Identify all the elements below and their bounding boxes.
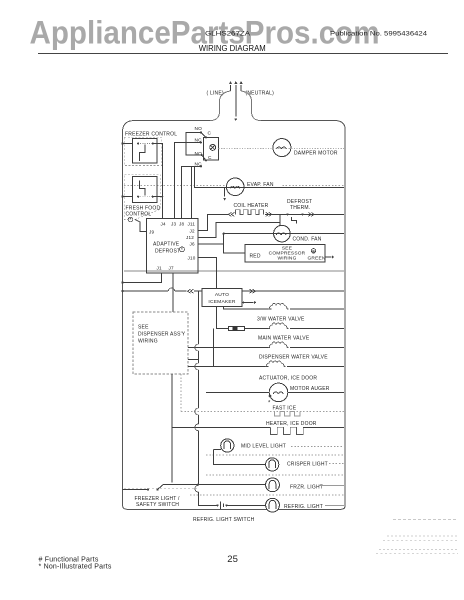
svg-text:J4: J4	[161, 222, 166, 227]
wire auger motor line	[206, 391, 269, 393]
svg-text:FRZR. LIGHT: FRZR. LIGHT	[290, 484, 323, 490]
power cord plug arrows	[230, 85, 232, 91]
wire J6 to compressor	[198, 243, 224, 245]
svg-text:Publication No. 5995436424: Publication No. 5995436424	[330, 31, 428, 38]
divider lights 1	[206, 454, 344, 456]
wire stub from dispenser box	[188, 359, 198, 361]
svg-text:* Non-Illustrated Parts: * Non-Illustrated Parts	[39, 564, 112, 571]
svg-text:DEFROST: DEFROST	[155, 249, 180, 255]
svg-text:3/W WATER VALVE: 3/W WATER VALVE	[257, 317, 305, 323]
wire NO tie	[186, 133, 202, 156]
wire to J9	[135, 220, 147, 232]
fast ice heater dashed	[275, 412, 301, 417]
svg-text:DISPENSER ASS'Y: DISPENSER ASS'Y	[138, 332, 186, 338]
solenoid actuator ice door	[266, 366, 269, 368]
svg-text:DISPENSER WATER VALVE: DISPENSER WATER VALVE	[259, 355, 328, 361]
wire cond fan node to compressor	[224, 234, 245, 253]
wire freezer control to left bus	[123, 142, 133, 144]
wire coil line to cond fan top	[279, 214, 281, 225]
freezer light safety switch	[123, 489, 149, 491]
freezer control dashed box	[124, 137, 162, 165]
connector arrows coil heater right	[265, 213, 344, 215]
evap fan arrow	[224, 187, 226, 196]
auger motor M2	[269, 383, 288, 402]
wire J1 to left bus	[123, 273, 162, 283]
freezer control switch	[137, 142, 139, 144]
divider freezer light section dashed	[124, 488, 197, 490]
wire C2 to J11	[192, 166, 202, 218]
wire green arrow	[325, 256, 332, 258]
wire J2 to coil heater line	[198, 214, 228, 230]
evap fan motor	[226, 178, 244, 196]
svg-text:REFRIG. LIGHT: REFRIG. LIGHT	[284, 504, 323, 510]
wire evap fan feed	[195, 166, 227, 187]
svg-text:CRISPER LIGHT: CRISPER LIGHT	[287, 462, 328, 468]
heater ice door element	[270, 427, 303, 434]
wire NC2 to J8	[182, 166, 202, 218]
wire mid light to right bus dotted	[291, 446, 344, 448]
wire channel vertical	[197, 291, 199, 344]
wire J10 to icemaker top	[198, 258, 217, 289]
defrost therm bracket	[291, 217, 296, 223]
divider damper section	[124, 185, 344, 187]
evap fan motor arcs	[230, 186, 234, 188]
fresh food control switch box	[133, 177, 158, 203]
wire dispenser valve from box	[188, 347, 270, 349]
evap fan label	[246, 180, 282, 187]
fuse F1	[229, 326, 245, 330]
wire auger to right bus	[288, 391, 344, 393]
faint stamp row 1	[393, 519, 458, 521]
svg-text:25: 25	[227, 554, 238, 565]
svg-text:FAST ICE: FAST ICE	[273, 406, 297, 412]
svg-text:SAFETY SWITCH: SAFETY SWITCH	[136, 502, 179, 508]
wire cond fan line	[224, 233, 344, 235]
svg-text:C: C	[208, 155, 212, 161]
divider dotted vertical at dispenser	[180, 374, 182, 412]
svg-text:J11: J11	[188, 222, 196, 227]
svg-text:THERM.: THERM.	[290, 205, 310, 211]
svg-text:MAIN WATER VALVE: MAIN WATER VALVE	[258, 336, 310, 342]
ground symbol circled	[311, 249, 315, 253]
auto icemaker box	[202, 289, 242, 307]
frzr light bulb	[266, 478, 280, 492]
damper motor winding box	[204, 137, 219, 160]
damper switch contacts 1	[200, 131, 202, 133]
svg-text:J7: J7	[169, 266, 174, 271]
neutral conductor wire	[241, 91, 261, 121]
wire fresh food control to left bus	[123, 196, 133, 198]
svg-text:*: *	[181, 247, 183, 252]
svg-text:WIRING DIAGRAM: WIRING DIAGRAM	[199, 44, 266, 53]
cabinet outline	[123, 121, 346, 510]
solenoid main water valve	[268, 323, 288, 329]
mechanical link dotted	[219, 148, 273, 150]
refrig light bulb	[266, 498, 280, 512]
svg-text:REFRIG. LIGHT SWITCH: REFRIG. LIGHT SWITCH	[193, 517, 255, 523]
svg-text:COND. FAN: COND. FAN	[293, 237, 322, 243]
svg-text:DAMPER MOTOR: DAMPER MOTOR	[294, 151, 338, 157]
cond fan motor arcs	[277, 233, 281, 235]
wire icemaker feed from left bus	[123, 290, 169, 292]
connector arrows icemaker left	[188, 289, 194, 293]
damper motor link dotted through	[273, 148, 344, 150]
solenoid dispenser water valve	[268, 342, 288, 348]
header rule	[38, 53, 448, 55]
wire crossover hump icemaker	[168, 288, 174, 291]
wire switch to refrig bulb	[227, 504, 266, 506]
crisper light bulb	[266, 458, 279, 471]
svg-text:J9: J9	[149, 230, 154, 235]
defrost heater element	[236, 210, 264, 215]
svg-text:J12: J12	[186, 235, 194, 240]
svg-text:GLHS267ZA: GLHS267ZA	[205, 31, 251, 38]
wire lights bus down from fuse line	[213, 329, 215, 367]
connector arrows right	[308, 212, 314, 216]
circled R symbol	[180, 247, 185, 252]
svg-text:WIRING: WIRING	[138, 339, 158, 345]
svg-text:# Functional Parts: # Functional Parts	[39, 557, 99, 564]
faint stamp row 3	[379, 549, 458, 551]
wire icemaker to right bus	[242, 290, 344, 292]
solenoid 3W water valve	[269, 308, 272, 310]
svg-text:COIL HEATER: COIL HEATER	[234, 203, 269, 209]
svg-text:WIRING: WIRING	[277, 256, 296, 262]
ground conductor wire with arrow	[235, 91, 237, 117]
adaptive defrost board U1	[147, 219, 199, 273]
damper winding circled symbol	[210, 144, 216, 150]
wire NC1 to J3	[175, 143, 201, 219]
fresh food control dashed box	[124, 175, 161, 220]
svg-text:J1: J1	[157, 266, 162, 271]
svg-text:RED: RED	[250, 254, 261, 260]
cond fan motor	[274, 225, 291, 242]
svg-text:MOTOR AUGER: MOTOR AUGER	[290, 386, 330, 392]
line conductor wire	[210, 91, 231, 121]
divider compressor section	[124, 270, 344, 272]
wire mid to crisper	[214, 450, 266, 465]
wire actuator from box	[188, 366, 267, 368]
damper motor arcs	[277, 147, 281, 149]
svg-text:FREEZER CONTROL: FREEZER CONTROL	[125, 132, 177, 138]
svg-text:J3: J3	[171, 222, 176, 227]
wire J7 down to dispenser box	[172, 273, 174, 312]
wire evap fan to right bus	[227, 186, 344, 188]
damper switch contacts 2	[201, 154, 203, 156]
svg-text:AUTO: AUTO	[215, 292, 229, 298]
svg-text:SEE: SEE	[138, 325, 149, 331]
wire icemaker bottom to 3W valve	[223, 306, 270, 309]
svg-text:CONTROL: CONTROL	[126, 212, 152, 218]
divider lights 3	[190, 494, 344, 496]
icemaker aux arrow	[243, 302, 245, 304]
divider fast ice dotted	[181, 411, 344, 413]
svg-text:J6: J6	[190, 242, 195, 247]
see compressor wiring box	[245, 244, 325, 262]
wire icemaker bottom to fuse	[217, 306, 229, 328]
svg-text:HEATER, ICE DOOR: HEATER, ICE DOOR	[266, 421, 317, 427]
svg-text:ACTUATOR, ICE DOOR: ACTUATOR, ICE DOOR	[259, 376, 317, 382]
wire fresh food control to bus tee	[153, 196, 163, 198]
svg-text:J10: J10	[188, 256, 196, 261]
circled asterisk symbol	[128, 217, 132, 221]
svg-text:ADAPTIVE: ADAPTIVE	[153, 242, 180, 248]
svg-text:⊕: ⊕	[312, 249, 316, 254]
svg-text:J8: J8	[179, 222, 184, 227]
refrig light switch	[216, 504, 218, 506]
freezer control switch box	[133, 138, 158, 163]
wire heater ice door line	[172, 426, 270, 428]
node auger terminal	[269, 395, 272, 398]
faint stamp row 2	[387, 535, 458, 537]
svg-text:MID LEVEL LIGHT: MID LEVEL LIGHT	[241, 444, 286, 450]
see dispenser assy wiring box	[133, 312, 188, 374]
svg-text:GREEN: GREEN	[308, 256, 326, 262]
wire freezer control to J4	[153, 143, 163, 218]
divider lights 2	[206, 474, 344, 476]
wire crisper to right bus dotted	[329, 463, 344, 465]
svg-text:ICEMAKER: ICEMAKER	[208, 299, 235, 305]
fresh food control switch	[137, 196, 139, 198]
wire frzr to right bus	[319, 484, 344, 486]
svg-text:C: C	[208, 131, 212, 137]
svg-text:NO: NO	[195, 126, 203, 132]
connector arrows coil heater left	[228, 212, 234, 216]
svg-text:J2: J2	[190, 229, 195, 234]
node defrost therm junctions	[286, 213, 288, 215]
wire J12 to cond fan top	[198, 222, 280, 237]
wire J7 bus down left of channel	[171, 374, 173, 483]
wire refrig to right bus	[325, 504, 344, 506]
mid level light bulb	[214, 449, 222, 451]
wire safety switch to frzr light	[164, 483, 267, 485]
damper motor M1	[273, 139, 291, 157]
